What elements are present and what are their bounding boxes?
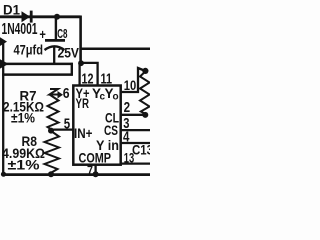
IC label IN+	[74, 126, 93, 141]
svg-text:+: +	[39, 26, 46, 42]
resistor R8	[2, 131, 59, 173]
svg-text:o: o	[113, 92, 119, 103]
svg-text:2: 2	[124, 99, 131, 116]
IC label CL	[105, 111, 119, 126]
IC label Y in	[96, 138, 119, 153]
pin 2 label	[124, 99, 131, 116]
svg-text:COMP: COMP	[79, 150, 112, 165]
IC label YR	[76, 96, 90, 111]
wire pin 5 lead	[51, 128, 73, 130]
node junction R8 ground	[48, 171, 54, 177]
arrow input connection upper left	[0, 37, 7, 46]
capacitor C8	[14, 17, 80, 64]
wire left vertical bus	[2, 41, 4, 176]
wire horizontal mid supply	[3, 63, 73, 66]
wire top supply rail	[0, 15, 81, 18]
pin 10 label	[124, 77, 137, 93]
wire pin 10 lead	[121, 68, 143, 92]
node junction resistor bottom pin 2	[142, 112, 148, 118]
svg-text:5: 5	[64, 116, 70, 133]
wire horizontal lower left	[2, 73, 73, 76]
wire pin 12 lead	[78, 63, 80, 87]
node junction on top rail for C8	[54, 14, 60, 20]
arrow input connection left at supply wire	[0, 59, 9, 68]
svg-text:6: 6	[63, 85, 70, 102]
svg-text:4: 4	[123, 128, 130, 145]
diode D1	[2, 2, 38, 38]
wire ground bus bottom	[2, 173, 151, 176]
wire pin 3 lead	[121, 129, 150, 131]
wire pin 13 lead	[121, 162, 150, 164]
svg-text:IN+: IN+	[74, 126, 93, 141]
svg-text:7: 7	[87, 162, 93, 179]
IC label CS	[104, 123, 118, 138]
capacitor C13 label	[132, 142, 153, 157]
svg-text:YR: YR	[76, 96, 90, 111]
pin 11 label	[101, 71, 113, 87]
svg-text:47μfd: 47μfd	[14, 42, 44, 58]
pin 5 label	[64, 116, 70, 133]
svg-text:±1%: ±1%	[11, 110, 35, 126]
node junction pin 7 ground	[93, 171, 99, 177]
svg-text:13: 13	[124, 150, 135, 166]
op-amp U1 IC box	[73, 86, 120, 165]
pin 12 label	[82, 71, 94, 87]
wire pin 11 lead	[81, 63, 98, 87]
IC label COMP	[79, 150, 112, 165]
node junction R7 R8 pin5	[48, 128, 54, 134]
pin 7 label	[87, 162, 93, 179]
svg-text:C8: C8	[57, 26, 67, 41]
resistor right vertical	[140, 72, 150, 114]
node junction resistor top	[142, 68, 148, 74]
node junction pin 12	[78, 60, 84, 66]
pin 13 label	[124, 150, 135, 166]
pin 6 label	[63, 85, 70, 102]
svg-text:10: 10	[124, 77, 137, 93]
pin 4 label	[123, 128, 130, 145]
svg-text:25V: 25V	[58, 45, 80, 60]
wire pin 4 lead	[121, 142, 150, 144]
wire long horizontal to right edge	[80, 48, 151, 51]
IC label Y+ YcYo	[76, 86, 119, 103]
svg-text:±1%: ±1%	[8, 157, 41, 173]
svg-text:CS: CS	[104, 123, 118, 138]
svg-text:1N4001: 1N4001	[2, 21, 38, 38]
pin 3 label	[123, 115, 129, 132]
resistor R7	[3, 87, 63, 129]
node junction left vertical to ground bus	[1, 172, 6, 177]
wire pin 2 lead	[121, 114, 144, 116]
svg-text:D1: D1	[3, 2, 20, 18]
svg-text:C13: C13	[132, 142, 150, 157]
wire step vertical	[71, 63, 73, 76]
wire pin 7 stub	[94, 164, 96, 175]
wire vertical from top rail down to pin 12 node	[79, 16, 82, 64]
